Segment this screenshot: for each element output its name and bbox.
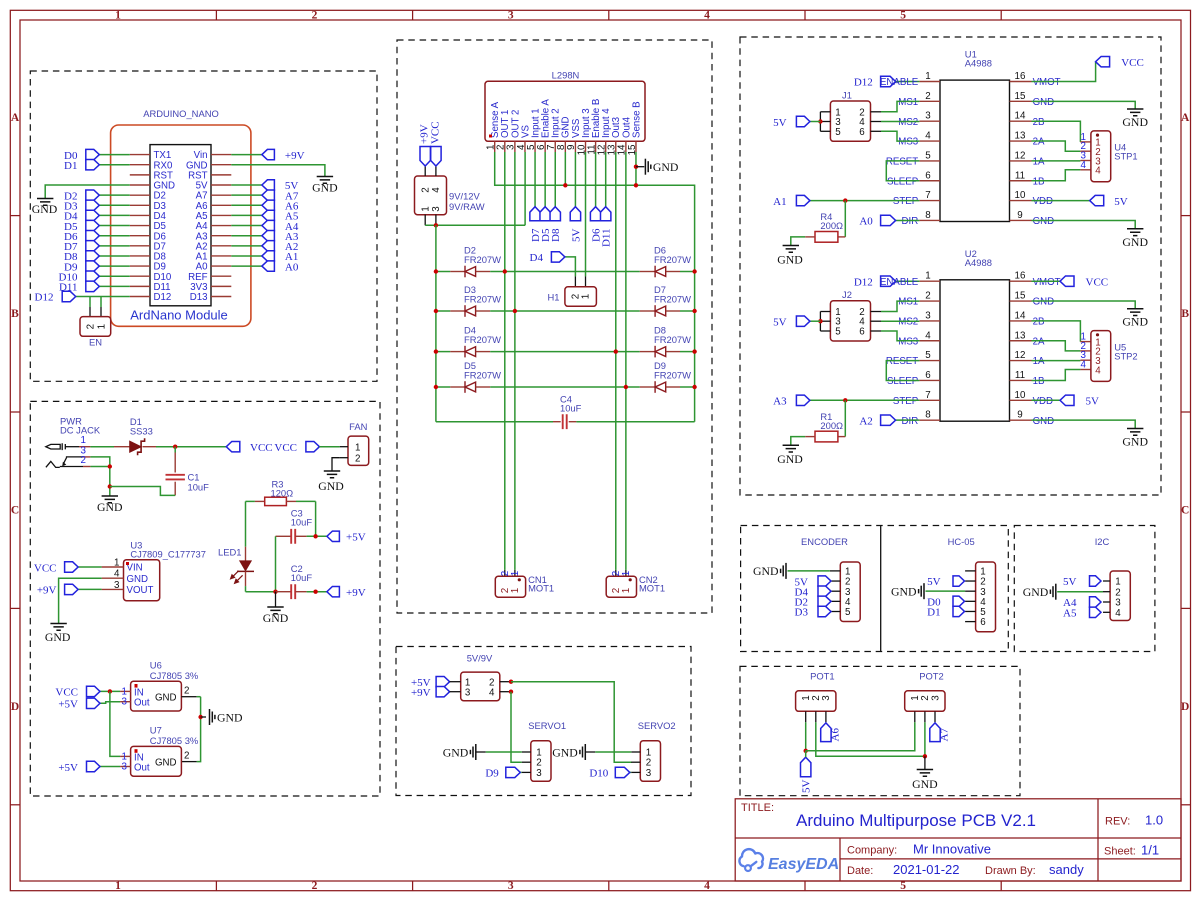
svg-text:D11: D11: [601, 229, 613, 248]
svg-text:VCC: VCC: [429, 121, 441, 144]
svg-text:sandy: sandy: [1049, 862, 1084, 877]
svg-text:14: 14: [1015, 310, 1026, 321]
svg-text:GND: GND: [1122, 235, 1148, 249]
svg-text:Sheet:: Sheet:: [1104, 846, 1136, 858]
svg-text:7: 7: [925, 190, 930, 201]
svg-text:5V: 5V: [773, 117, 787, 129]
svg-text:DIR: DIR: [902, 216, 919, 227]
svg-text:10: 10: [1015, 390, 1026, 401]
svg-text:+9V: +9V: [285, 150, 305, 162]
svg-text:MOT1: MOT1: [528, 583, 554, 594]
svg-text:3: 3: [821, 695, 832, 701]
svg-text:FAN: FAN: [349, 421, 367, 432]
svg-text:1: 1: [115, 10, 121, 22]
svg-text:VCC: VCC: [55, 687, 78, 699]
svg-text:1B: 1B: [1033, 176, 1045, 187]
svg-text:GND: GND: [653, 160, 679, 174]
svg-text:GND: GND: [552, 745, 578, 759]
svg-text:1/1: 1/1: [1141, 843, 1159, 858]
svg-text:FR207W: FR207W: [654, 254, 691, 265]
svg-text:3: 3: [508, 10, 514, 22]
svg-text:+5V: +5V: [58, 699, 78, 711]
svg-text:8: 8: [925, 410, 931, 421]
svg-text:GND: GND: [443, 745, 469, 759]
svg-text:FR207W: FR207W: [654, 334, 691, 345]
svg-text:GND: GND: [1122, 115, 1148, 129]
svg-text:6: 6: [859, 327, 865, 338]
svg-text:GND: GND: [312, 181, 338, 195]
svg-text:5V: 5V: [1063, 576, 1077, 588]
svg-text:2: 2: [925, 91, 930, 102]
svg-text:1A: 1A: [1033, 157, 1045, 168]
svg-text:A6: A6: [830, 728, 842, 742]
svg-text:1: 1: [355, 442, 360, 453]
svg-text:5: 5: [925, 150, 931, 161]
svg-text:5: 5: [835, 327, 841, 338]
svg-text:11: 11: [1015, 170, 1025, 181]
svg-text:4: 4: [1081, 360, 1087, 371]
svg-text:FR207W: FR207W: [464, 334, 501, 345]
svg-text:6: 6: [980, 617, 986, 628]
svg-text:13: 13: [1015, 330, 1026, 341]
svg-text:1: 1: [114, 558, 119, 569]
svg-text:16: 16: [1015, 71, 1026, 82]
svg-text:D13: D13: [190, 292, 208, 303]
svg-text:+9V: +9V: [346, 587, 366, 599]
svg-text:FR207W: FR207W: [654, 293, 691, 304]
svg-text:12: 12: [1015, 350, 1026, 361]
svg-text:3: 3: [508, 880, 514, 892]
svg-text:1: 1: [581, 294, 592, 299]
svg-text:D3: D3: [795, 607, 809, 619]
svg-text:HC-05: HC-05: [948, 536, 975, 547]
svg-text:ENCODER: ENCODER: [801, 536, 848, 547]
svg-text:GND: GND: [1033, 216, 1055, 227]
svg-text:1: 1: [421, 206, 432, 211]
svg-text:200Ω: 200Ω: [820, 220, 843, 231]
svg-text:SLEEP: SLEEP: [887, 176, 918, 187]
svg-text:4: 4: [925, 330, 931, 341]
svg-text:10uF: 10uF: [291, 572, 313, 583]
svg-text:GND: GND: [1033, 416, 1055, 427]
svg-text:9: 9: [1017, 410, 1022, 421]
svg-text:Date:: Date:: [847, 865, 873, 877]
svg-text:VMOT: VMOT: [1033, 277, 1061, 288]
svg-text:A4988: A4988: [965, 57, 992, 68]
svg-text:ENABLE: ENABLE: [880, 77, 919, 88]
svg-text:GND: GND: [318, 479, 344, 493]
svg-text:STP2: STP2: [1114, 350, 1137, 361]
svg-text:16: 16: [1015, 271, 1026, 282]
svg-text:L298N: L298N: [552, 70, 580, 81]
svg-text:1A: 1A: [1033, 356, 1045, 367]
svg-text:Arduino Multipurpose PCB V2.1: Arduino Multipurpose PCB V2.1: [796, 811, 1036, 830]
svg-text:J2: J2: [842, 289, 852, 300]
svg-text:6: 6: [925, 370, 931, 381]
svg-text:MS1: MS1: [898, 297, 918, 308]
svg-text:ENABLE: ENABLE: [880, 277, 919, 288]
svg-text:9: 9: [1017, 210, 1022, 221]
svg-text:D12: D12: [854, 77, 873, 89]
svg-text:2: 2: [355, 453, 360, 464]
svg-text:12: 12: [1015, 150, 1026, 161]
svg-text:1: 1: [96, 324, 107, 329]
svg-text:LED1: LED1: [218, 547, 241, 558]
svg-text:2021-01-22: 2021-01-22: [893, 862, 960, 877]
svg-text:GND: GND: [1023, 585, 1049, 599]
svg-text:A5: A5: [1063, 608, 1077, 620]
svg-text:2: 2: [421, 187, 432, 192]
svg-text:5: 5: [845, 607, 851, 618]
svg-text:4: 4: [704, 880, 710, 892]
svg-text:A7: A7: [939, 728, 951, 742]
svg-text:POT1: POT1: [810, 671, 835, 682]
svg-text:Drawn By:: Drawn By:: [985, 865, 1036, 877]
svg-text:MS2: MS2: [898, 317, 918, 328]
svg-text:5: 5: [835, 127, 841, 138]
svg-text:1: 1: [510, 571, 521, 576]
svg-text:Sense B: Sense B: [631, 101, 642, 138]
svg-text:5V: 5V: [801, 780, 813, 794]
svg-text:+5V: +5V: [346, 532, 366, 544]
svg-text:6: 6: [859, 127, 865, 138]
svg-text:J1: J1: [842, 90, 852, 101]
svg-text:U6: U6: [150, 659, 162, 670]
svg-text:5V: 5V: [1114, 196, 1128, 208]
svg-text:3: 3: [536, 768, 542, 779]
svg-text:2: 2: [312, 10, 318, 22]
svg-text:I2C: I2C: [1095, 536, 1110, 547]
svg-text:3: 3: [465, 687, 471, 698]
svg-text:B: B: [11, 308, 19, 320]
svg-text:CJ7805 3%: CJ7805 3%: [150, 735, 198, 746]
svg-text:10uF: 10uF: [291, 517, 313, 528]
svg-text:RESET: RESET: [886, 157, 918, 168]
svg-text:5: 5: [900, 880, 906, 892]
svg-text:6: 6: [925, 170, 931, 181]
svg-text:U7: U7: [150, 724, 162, 735]
svg-text:7: 7: [925, 390, 930, 401]
svg-text:10uF: 10uF: [560, 403, 582, 414]
svg-text:VCC: VCC: [1086, 277, 1109, 289]
svg-text:5: 5: [925, 350, 931, 361]
svg-text:CJ7809_C177737: CJ7809_C177737: [130, 548, 206, 559]
svg-text:ARDUINO_NANO: ARDUINO_NANO: [143, 108, 219, 119]
svg-text:3: 3: [646, 768, 652, 779]
svg-text:GND: GND: [45, 630, 71, 644]
svg-text:A4988: A4988: [965, 257, 992, 268]
svg-text:11: 11: [1015, 370, 1025, 381]
svg-text:VOUT: VOUT: [127, 585, 154, 596]
svg-text:Out: Out: [134, 698, 150, 709]
svg-text:4: 4: [431, 187, 442, 193]
svg-text:DIR: DIR: [902, 416, 919, 427]
svg-text:2B: 2B: [1033, 317, 1045, 328]
svg-text:D: D: [1181, 701, 1189, 713]
svg-text:3: 3: [925, 111, 931, 122]
svg-text:4: 4: [1081, 160, 1087, 171]
svg-text:MS1: MS1: [898, 97, 918, 108]
svg-text:2A: 2A: [1033, 336, 1045, 347]
svg-text:2: 2: [184, 686, 189, 697]
svg-text:15: 15: [1015, 291, 1026, 302]
svg-text:GND: GND: [777, 452, 803, 466]
svg-text:5: 5: [900, 10, 906, 22]
svg-text:3: 3: [930, 695, 941, 701]
svg-text:TITLE:: TITLE:: [741, 802, 774, 814]
svg-text:MOT1: MOT1: [639, 583, 665, 594]
svg-text:2: 2: [925, 291, 930, 302]
svg-text:1: 1: [115, 880, 121, 892]
svg-text:1: 1: [510, 588, 521, 593]
svg-text:D8: D8: [550, 228, 562, 242]
svg-text:3: 3: [925, 310, 931, 321]
svg-text:C: C: [1181, 504, 1189, 516]
svg-text:4: 4: [1115, 608, 1121, 619]
svg-text:+9V: +9V: [411, 687, 431, 699]
svg-text:9V/12V: 9V/12V: [449, 191, 480, 202]
svg-text:4: 4: [704, 10, 710, 22]
svg-text:1: 1: [81, 435, 86, 446]
svg-text:1: 1: [621, 588, 632, 593]
svg-text:5V/9V: 5V/9V: [467, 653, 493, 664]
svg-text:SLEEP: SLEEP: [887, 376, 918, 387]
svg-text:+5V: +5V: [58, 762, 78, 774]
svg-text:1: 1: [925, 71, 930, 82]
svg-text:VCC: VCC: [274, 442, 297, 454]
svg-text:VCC: VCC: [34, 562, 57, 574]
svg-text:2: 2: [312, 880, 318, 892]
svg-text:GND: GND: [155, 758, 177, 769]
svg-text:STEP: STEP: [893, 396, 918, 407]
svg-text:POT2: POT2: [919, 671, 944, 682]
svg-text:GND: GND: [891, 584, 917, 598]
svg-text:D4: D4: [530, 252, 544, 264]
svg-text:REV:: REV:: [1105, 816, 1130, 828]
svg-text:Out: Out: [134, 763, 150, 774]
svg-text:13: 13: [1015, 131, 1026, 142]
svg-text:VMOT: VMOT: [1033, 77, 1061, 88]
svg-text:GND: GND: [1033, 297, 1055, 308]
svg-text:GND: GND: [1033, 97, 1055, 108]
svg-text:A: A: [11, 112, 20, 124]
svg-text:D12: D12: [154, 292, 172, 303]
svg-text:MS3: MS3: [898, 137, 918, 148]
svg-text:2B: 2B: [1033, 117, 1045, 128]
svg-text:+9V: +9V: [37, 585, 57, 597]
svg-text:VCC: VCC: [250, 442, 273, 454]
svg-text:14: 14: [1015, 111, 1026, 122]
svg-text:1.0: 1.0: [1145, 813, 1163, 828]
svg-text:D1: D1: [64, 160, 77, 172]
svg-text:8: 8: [925, 210, 931, 221]
svg-text:GND: GND: [127, 574, 149, 585]
svg-text:SERVO2: SERVO2: [638, 720, 676, 731]
svg-text:A: A: [1181, 112, 1190, 124]
svg-text:CJ7805 3%: CJ7805 3%: [150, 670, 198, 681]
svg-text:A3: A3: [773, 396, 787, 408]
svg-text:STP1: STP1: [1114, 151, 1137, 162]
svg-text:FR207W: FR207W: [464, 369, 501, 380]
svg-text:FR207W: FR207W: [464, 254, 501, 265]
svg-text:15: 15: [1015, 91, 1026, 102]
svg-text:4: 4: [925, 131, 931, 142]
svg-text:GND: GND: [777, 253, 803, 267]
svg-text:GND: GND: [912, 777, 938, 791]
svg-text:1B: 1B: [1033, 376, 1045, 387]
svg-text:RESET: RESET: [886, 356, 918, 367]
svg-text:4: 4: [1095, 166, 1101, 177]
svg-text:GND: GND: [155, 693, 177, 704]
svg-text:4: 4: [114, 569, 120, 580]
svg-text:10: 10: [1015, 190, 1026, 201]
svg-text:GND: GND: [1122, 435, 1148, 449]
svg-text:VDD: VDD: [1033, 196, 1053, 207]
svg-text:D12: D12: [35, 292, 54, 304]
svg-text:B: B: [1181, 308, 1189, 320]
svg-text:GND: GND: [32, 202, 58, 216]
svg-text:D: D: [11, 701, 19, 713]
svg-text:2: 2: [184, 751, 189, 762]
svg-text:A1: A1: [773, 196, 786, 208]
svg-text:D9: D9: [485, 768, 499, 780]
svg-text:A2: A2: [859, 415, 872, 427]
svg-text:EN: EN: [89, 336, 102, 347]
svg-text:9V/RAW: 9V/RAW: [449, 201, 485, 212]
svg-text:3: 3: [114, 580, 120, 591]
svg-text:5V: 5V: [1086, 396, 1100, 408]
svg-text:3: 3: [122, 697, 128, 708]
svg-text:VCC: VCC: [1121, 57, 1144, 69]
svg-text:2: 2: [85, 324, 96, 329]
svg-text:4: 4: [489, 687, 495, 698]
svg-text:SERVO1: SERVO1: [528, 720, 566, 731]
svg-text:1: 1: [925, 271, 930, 282]
svg-text:1: 1: [1115, 577, 1120, 588]
svg-text:4: 4: [1095, 365, 1101, 376]
svg-text:MS3: MS3: [898, 336, 918, 347]
svg-text:GND: GND: [217, 710, 243, 724]
svg-text:1: 1: [621, 571, 632, 576]
svg-text:200Ω: 200Ω: [820, 420, 843, 431]
svg-text:ArdNano Module: ArdNano Module: [130, 308, 228, 323]
svg-text:FR207W: FR207W: [654, 369, 691, 380]
svg-text:GND: GND: [97, 500, 123, 514]
svg-text:D1: D1: [927, 607, 940, 619]
svg-text:10uF: 10uF: [188, 482, 210, 493]
svg-text:Mr Innovative: Mr Innovative: [913, 842, 991, 857]
svg-text:GND: GND: [263, 611, 289, 625]
svg-text:Company:: Company:: [847, 845, 897, 857]
svg-text:C: C: [11, 504, 19, 516]
svg-text:D10: D10: [589, 768, 608, 780]
svg-text:2: 2: [81, 455, 86, 466]
svg-text:D12: D12: [854, 276, 873, 288]
svg-text:5V: 5V: [570, 228, 582, 242]
svg-text:SS33: SS33: [130, 425, 153, 436]
svg-text:EasyEDA: EasyEDA: [768, 856, 839, 873]
svg-text:3: 3: [431, 206, 442, 212]
svg-text:FR207W: FR207W: [464, 293, 501, 304]
svg-text:STEP: STEP: [893, 196, 918, 207]
svg-text:H1: H1: [548, 291, 560, 302]
svg-text:3: 3: [122, 762, 128, 773]
svg-text:DC JACK: DC JACK: [60, 425, 101, 436]
svg-text:5V: 5V: [773, 317, 787, 329]
svg-text:2A: 2A: [1033, 137, 1045, 148]
svg-text:VDD: VDD: [1033, 396, 1053, 407]
svg-text:A0: A0: [859, 216, 873, 228]
svg-text:GND: GND: [753, 564, 779, 578]
svg-text:A0: A0: [285, 261, 299, 273]
svg-text:GND: GND: [1122, 315, 1148, 329]
svg-text:MS2: MS2: [898, 117, 918, 128]
svg-text:5V: 5V: [927, 576, 941, 588]
